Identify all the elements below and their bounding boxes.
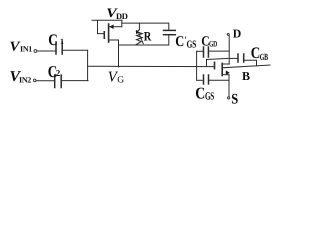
svg-text:D: D	[233, 27, 242, 41]
svg-text:S: S	[231, 92, 238, 108]
svg-text:C: C	[175, 34, 184, 50]
svg-text:2: 2	[56, 68, 61, 78]
svg-text:GS: GS	[187, 40, 197, 51]
svg-text:B: B	[242, 69, 250, 83]
svg-text:1: 1	[60, 37, 64, 46]
svg-text:C: C	[48, 32, 58, 49]
svg-text:C: C	[195, 84, 205, 103]
svg-text:GB: GB	[260, 53, 269, 63]
svg-text:IN2: IN2	[19, 76, 31, 85]
svg-text:R: R	[144, 29, 152, 44]
svg-text:G: G	[117, 76, 124, 86]
svg-text:DD: DD	[116, 11, 128, 21]
svg-text:GD: GD	[209, 39, 217, 49]
svg-text:IN1: IN1	[20, 45, 32, 54]
svg-text:V: V	[10, 39, 21, 54]
svg-text:GS: GS	[205, 91, 214, 103]
